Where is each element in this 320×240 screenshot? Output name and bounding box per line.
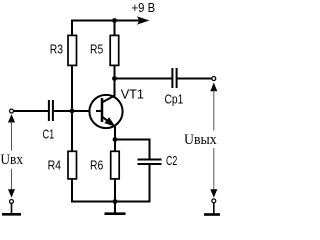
capacitor C2 xyxy=(138,160,162,165)
svg-text:R6: R6 xyxy=(90,158,103,172)
junction dot ground node xyxy=(113,199,118,204)
wire collector node to Cp1 xyxy=(114,78,172,80)
junction dot base node xyxy=(70,109,75,114)
wire R5 bottom / collector lead xyxy=(114,66,116,96)
svg-text:Uвых: Uвых xyxy=(184,132,217,148)
Uvx arrow down head xyxy=(8,189,15,197)
wire Cp1 to output terminal xyxy=(177,78,211,80)
input terminal top xyxy=(10,109,14,113)
wire top supply rail xyxy=(71,20,140,22)
Uvyx arrow up head xyxy=(210,83,217,92)
wire emitter node to C2 xyxy=(114,139,150,159)
Uvyx arrow down head xyxy=(210,189,217,197)
ground output xyxy=(204,203,220,215)
wire C1 to base xyxy=(54,110,102,112)
svg-text:C2: C2 xyxy=(166,154,177,168)
svg-text:Cp1: Cp1 xyxy=(165,92,184,107)
wire R5 top lead xyxy=(114,20,116,36)
capacitor Cp1 xyxy=(172,68,176,88)
svg-text:R3: R3 xyxy=(50,43,63,57)
Uvx arrow shaft lower xyxy=(11,169,13,190)
svg-text:+9 В: +9 В xyxy=(132,0,156,15)
ground input xyxy=(2,204,21,215)
resistor R5 xyxy=(110,35,119,65)
wire input terminal to C1 xyxy=(14,110,48,112)
junction dot emitter node xyxy=(113,137,118,142)
svg-text:C1: C1 xyxy=(43,127,55,141)
svg-text:R5: R5 xyxy=(90,43,103,57)
power arrow +9V xyxy=(137,16,150,25)
wire R3 top lead xyxy=(71,20,73,36)
resistor R4 xyxy=(68,151,77,179)
svg-text:Uвх: Uвх xyxy=(0,152,23,168)
svg-text:R4: R4 xyxy=(48,158,61,172)
capacitor C1 xyxy=(49,100,53,121)
wire R4 bottom lead xyxy=(71,179,73,202)
resistor R6 xyxy=(111,151,120,179)
ground center xyxy=(105,202,126,214)
Uvyx arrow shaft upper xyxy=(213,91,215,131)
junction dot supply rail xyxy=(112,18,117,23)
wire R6 bottom lead xyxy=(114,179,116,201)
resistor R3 xyxy=(68,35,77,65)
Uvx arrow shaft upper xyxy=(11,122,13,151)
Uvyx arrow shaft lower xyxy=(213,148,215,190)
svg-text:VT1: VT1 xyxy=(121,86,144,101)
wire C2 bottom lead xyxy=(149,165,151,203)
input terminal bottom xyxy=(10,199,14,203)
wire emitter vertical / R6 top lead xyxy=(114,126,116,150)
output terminal bottom xyxy=(212,199,216,203)
wire R3-R4 rail through base node xyxy=(71,66,73,151)
wire bottom rail xyxy=(71,201,151,203)
Uvx arrow up head xyxy=(8,114,15,122)
output terminal top xyxy=(212,77,216,81)
transistor VT1 xyxy=(89,95,122,128)
junction dot collector node xyxy=(112,76,117,81)
